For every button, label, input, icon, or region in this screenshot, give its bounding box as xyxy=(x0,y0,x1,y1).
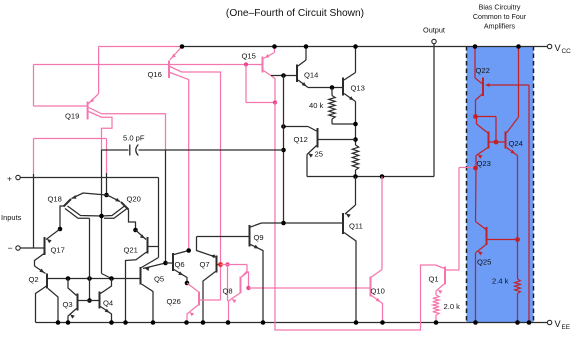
transistor Q20 xyxy=(107,195,141,210)
svg-text:Bias Circuitry: Bias Circuitry xyxy=(479,4,521,12)
node 40k top xyxy=(330,85,335,90)
wire Q24 emitter down xyxy=(517,156,519,280)
title xyxy=(226,8,364,19)
svg-text:Q25: Q25 xyxy=(477,258,491,267)
wire Q20 collectors xyxy=(102,206,128,218)
node Q8 collector junction xyxy=(246,286,250,290)
wire VCC top rail xyxy=(99,46,548,48)
svg-text:Q2: Q2 xyxy=(29,275,39,284)
node Q3 base tie xyxy=(87,298,92,303)
wire + input to Q21/Q5 xyxy=(20,178,158,258)
wire Q19 collector 2 jog xyxy=(89,112,112,151)
svg-text:Q12: Q12 xyxy=(294,135,308,144)
node Q5 Q6 junction xyxy=(163,261,168,266)
wire Q19 collector 1 to compensation cap xyxy=(89,108,166,150)
node Q25 base junction xyxy=(515,237,520,242)
node Q14 base / Q12 net xyxy=(281,73,286,78)
node Q12 base tap xyxy=(353,137,358,142)
svg-text:Q21: Q21 xyxy=(124,246,138,255)
node pink junction x227 xyxy=(225,262,229,266)
svg-text:25: 25 xyxy=(315,150,323,159)
svg-text:Amplifiers: Amplifiers xyxy=(484,23,516,31)
svg-text:Q17: Q17 xyxy=(51,246,65,255)
svg-text:Q15: Q15 xyxy=(242,52,256,61)
node red junction y168 xyxy=(473,166,478,171)
bottom rail junction nodes xyxy=(56,320,532,325)
node y176 x382 xyxy=(380,174,385,179)
transistor Q3 xyxy=(63,279,90,323)
transistor Q26 xyxy=(167,283,221,323)
bias box caption xyxy=(473,4,527,31)
wire Q18 base down to Q17 xyxy=(60,206,64,229)
svg-text:2.4 k: 2.4 k xyxy=(492,277,509,286)
transistor Q6 xyxy=(166,251,189,284)
wire Q2 collector 2 to rail xyxy=(48,289,58,323)
wire pink branch to Q15 collector node xyxy=(246,65,275,103)
transistor Q25 xyxy=(476,227,518,267)
svg-text:Q22: Q22 xyxy=(476,66,490,75)
transistor Q16 xyxy=(148,47,183,80)
node red base tie xyxy=(494,140,499,145)
svg-text:5.0 pF: 5.0 pF xyxy=(123,134,145,143)
svg-text:CC: CC xyxy=(562,48,572,55)
wire Q16 collector 1 to Q7/Q26 bases xyxy=(170,67,221,301)
wire Q18 collector 2 down xyxy=(89,218,91,300)
svg-text:Q14: Q14 xyxy=(304,71,318,80)
svg-text:−: − xyxy=(8,243,13,253)
node red junction x475 y116 xyxy=(473,114,478,119)
VCC terminal xyxy=(547,43,571,55)
wire Q13 emitter chain xyxy=(355,102,357,146)
svg-text:Q16: Q16 xyxy=(148,70,162,79)
transistor Q11 xyxy=(343,177,363,323)
input + terminal xyxy=(7,174,20,184)
svg-text:Q4: Q4 xyxy=(103,299,113,308)
wire - input branch up xyxy=(34,139,107,249)
wire Q8/Q26 node to Q10 base xyxy=(249,287,370,289)
wire Q14 base from Q15 xyxy=(271,75,296,77)
resistor 2.0k xyxy=(433,295,460,323)
transistor Q14 xyxy=(297,47,318,88)
wire Q22 collector to mirror xyxy=(476,94,484,117)
wire Q12 emitter to output line xyxy=(306,155,308,177)
svg-text:(One–Fourth of Circuit Shown): (One–Fourth of Circuit Shown) xyxy=(226,8,364,19)
node pink junction at 246,64 xyxy=(244,62,248,66)
node Q18 base / Q17 emitter xyxy=(58,227,63,232)
transistor Q23 xyxy=(476,117,495,169)
svg-text:Q20: Q20 xyxy=(127,195,141,204)
wire Q23 emitter to Q25 xyxy=(476,156,487,230)
wire Q25 emitter to rail xyxy=(475,253,477,323)
capacitor C1 5.0 pF xyxy=(102,134,284,156)
wire - input to Q17 base xyxy=(20,247,44,249)
svg-text:Q13: Q13 xyxy=(351,84,365,93)
wire Q2 collector 1 to rail xyxy=(36,286,47,323)
transistor Q21 xyxy=(124,230,148,255)
transistor Q5 xyxy=(141,263,166,285)
svg-text:Q9: Q9 xyxy=(254,233,264,242)
node 40k bottom xyxy=(353,122,358,127)
wire pink long path to Q1 collector xyxy=(275,103,445,331)
node Q7 base red junction xyxy=(218,262,223,267)
transistor Q13 xyxy=(343,47,365,102)
wire Q5 emitter to rail xyxy=(142,284,154,323)
svg-text:Q19: Q19 xyxy=(65,112,79,121)
svg-text:2.0 k: 2.0 k xyxy=(444,302,461,311)
node Q15 collector junction xyxy=(273,100,277,104)
svg-text:40 k: 40 k xyxy=(309,101,324,110)
svg-text:Q24: Q24 xyxy=(509,139,523,148)
node Q6 collector xyxy=(186,248,191,253)
wire second stage vertical x283 xyxy=(283,75,285,224)
svg-text:Q3: Q3 xyxy=(63,300,73,309)
svg-text:+: + xyxy=(7,174,12,184)
wire Q21 base from + input xyxy=(149,246,159,248)
node input pair emitter junction xyxy=(104,193,109,198)
wire Q20 base down to Q21 xyxy=(129,210,136,231)
transistor Q9 xyxy=(197,223,264,323)
node Q20 base / Q21 emitter xyxy=(133,228,138,233)
input - terminal xyxy=(8,243,21,253)
transistor Q15 xyxy=(242,47,275,73)
wire Q15 collector down xyxy=(264,71,276,103)
node y278 x89 xyxy=(87,276,92,281)
Output terminal xyxy=(423,26,445,44)
svg-text:EE: EE xyxy=(562,324,571,331)
resistor 25 xyxy=(315,145,359,177)
svg-text:Q26: Q26 xyxy=(167,297,181,306)
transistor Q24 xyxy=(496,47,523,156)
transistor Q4 xyxy=(90,279,114,323)
svg-text:Q1: Q1 xyxy=(429,275,439,284)
node cap right xyxy=(281,148,286,153)
transistor Q1 xyxy=(429,168,474,296)
wire pink base rail y65 xyxy=(34,65,263,107)
wire output vertical xyxy=(433,44,435,177)
transistor Q2 xyxy=(29,266,48,289)
wire output horizontal y176 xyxy=(307,176,434,178)
svg-text:V: V xyxy=(555,43,562,53)
resistor 40k xyxy=(309,88,356,125)
node y176 x355 xyxy=(353,174,358,179)
wire Q16 collector 2 to Q6 collector xyxy=(170,73,189,251)
node Q12 collector xyxy=(281,124,286,129)
svg-text:Q18: Q18 xyxy=(48,195,62,204)
wire Q22 emitter down right side xyxy=(528,85,530,323)
transistor Q18 xyxy=(48,193,107,207)
wire cap-left vertical to Q5/Q6 node xyxy=(165,150,167,264)
svg-text:Q8: Q8 xyxy=(223,287,233,296)
wire Q7 base to Q8 xyxy=(221,265,248,302)
svg-text:Inputs: Inputs xyxy=(1,213,22,222)
VEE terminal xyxy=(547,319,570,331)
wire x101 to input-quad collector node xyxy=(102,150,112,279)
transistor Q19 xyxy=(65,47,99,121)
transistor Q8 xyxy=(223,272,249,323)
svg-text:Q5: Q5 xyxy=(154,275,164,284)
wire Q21 collector to rail xyxy=(126,252,147,323)
node y278 x111 Q4 collector xyxy=(109,276,114,281)
node Q6 emitter junction xyxy=(185,281,190,286)
svg-text:Q7: Q7 xyxy=(200,260,210,269)
wire mirror base line y278 xyxy=(48,278,140,280)
svg-text:Q23: Q23 xyxy=(477,159,491,168)
wire y223 line xyxy=(262,222,343,224)
node y223 x283 xyxy=(281,221,286,226)
node y278 x68 xyxy=(66,276,71,281)
transistor Q10 xyxy=(371,177,385,323)
wire VEE bottom rail xyxy=(36,322,548,324)
transistor Q12 xyxy=(284,127,356,158)
transistor Q22 xyxy=(475,47,529,97)
svg-text:Q10: Q10 xyxy=(371,287,385,296)
wire Q14 emitter to Q13 base xyxy=(308,87,342,89)
transistor Q17 xyxy=(35,229,65,266)
bias circuitry shaded region xyxy=(467,46,534,323)
svg-text:Output: Output xyxy=(423,26,445,35)
wire Q5 collector to + line xyxy=(142,258,159,268)
svg-text:V: V xyxy=(555,319,562,329)
wire mirror tie xyxy=(476,117,497,143)
top rail junction nodes xyxy=(180,44,521,49)
svg-text:Q11: Q11 xyxy=(349,222,363,231)
node collector cross junction xyxy=(99,214,104,219)
svg-text:Q6: Q6 xyxy=(175,260,185,269)
resistor 2.4k xyxy=(492,277,520,323)
wire Q18 collectors xyxy=(65,206,102,218)
svg-text:Common to Four: Common to Four xyxy=(473,13,527,21)
transistor Q7 xyxy=(197,237,221,323)
Inputs label xyxy=(1,213,22,222)
